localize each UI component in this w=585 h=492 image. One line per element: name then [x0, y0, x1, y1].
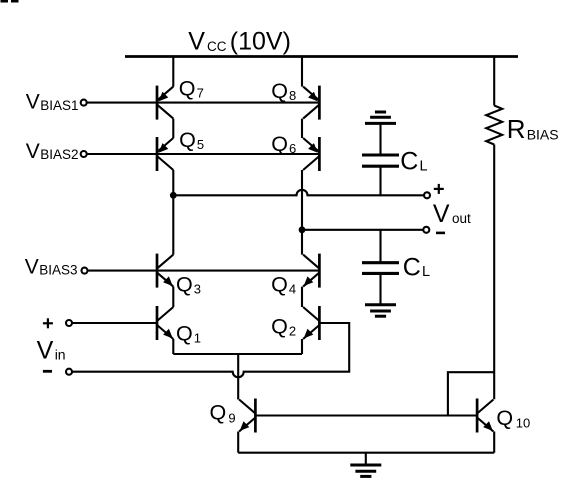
capacitor CL bottom: [362, 261, 399, 264]
wire to ground symbol: [365, 453, 367, 465]
svg-text:Q: Q: [271, 315, 288, 339]
capacitor CL top: [362, 153, 399, 156]
svg-text:V: V: [25, 255, 39, 278]
wire RBIAS to Q10 collector: [493, 145, 495, 400]
svg-text:BIAS3: BIAS3: [39, 263, 77, 278]
svg-text:7: 7: [197, 86, 204, 101]
svg-text:(10V): (10V): [230, 28, 291, 56]
svg-text:10: 10: [516, 415, 530, 430]
wire Q4 emitter to Q2 collector: [301, 287, 303, 307]
svg-text:Q: Q: [271, 272, 288, 296]
wire Q9 emitter down: [237, 432, 239, 453]
transistor Q9: [239, 399, 255, 433]
wire Vin+ to Q1 base: [72, 322, 157, 324]
Vout label: [433, 200, 471, 228]
svg-text:V: V: [433, 200, 450, 228]
svg-text:Q: Q: [179, 128, 196, 152]
wire ground to top CL: [379, 123, 381, 155]
wire Q9 base to Q10 base: [255, 414, 477, 416]
Vout+ plus sign: [434, 184, 444, 194]
svg-text:4: 4: [289, 281, 296, 296]
Q2 label: [271, 315, 296, 339]
wire emitter bus: [173, 353, 302, 355]
svg-text:C: C: [403, 253, 421, 281]
transistor Q5: [157, 137, 173, 171]
wire ground bus: [238, 452, 494, 454]
RBIAS label: [507, 114, 559, 144]
stray page marks top-left: [1, 0, 19, 3]
Vin minus sign: [43, 370, 52, 373]
wire top CL to + line: [379, 166, 381, 195]
wire VBIAS3 to Q3/Q4 bases: [87, 270, 319, 272]
CL top label: [400, 148, 427, 176]
Q7 label: [179, 77, 204, 101]
svg-text:L: L: [422, 264, 430, 280]
svg-text:Q: Q: [496, 406, 513, 430]
wire Q7 collector to Q5 emitter: [172, 119, 174, 138]
wire - output: [302, 229, 423, 231]
svg-text:BIAS2: BIAS2: [40, 147, 78, 162]
resistor RBIAS: [486, 106, 502, 145]
Q9 label: [210, 401, 236, 426]
wire Q10 emitter down: [493, 432, 495, 453]
terminal VBIAS1: [81, 100, 87, 106]
terminal Vin+: [66, 320, 72, 326]
node - output tap junction: [299, 226, 306, 233]
svg-text:BIAS: BIAS: [527, 126, 559, 142]
wire VCC to Q7 emitter: [172, 57, 174, 87]
wire Q5 collector to Q3 collector: [172, 170, 174, 255]
svg-text:9: 9: [228, 410, 235, 425]
VBIAS1 label: [26, 91, 79, 114]
transistor Q2: [303, 306, 319, 340]
svg-text:5: 5: [197, 137, 204, 152]
svg-text:V: V: [26, 140, 40, 163]
svg-text:out: out: [452, 211, 471, 226]
terminal Vout-: [423, 227, 429, 233]
wire Q10 diode connection base to collector: [448, 372, 494, 415]
transistor Q4: [303, 254, 319, 288]
Vout- minus sign: [436, 232, 445, 235]
Q5 label: [179, 128, 204, 152]
svg-text:V: V: [37, 337, 54, 365]
wire VBIAS2 to Q5/Q6 bases: [87, 153, 320, 155]
VBIAS3 label: [25, 255, 78, 278]
wire Q6 collector to Q4 collector: [301, 170, 303, 255]
svg-text:C: C: [400, 148, 418, 176]
svg-text:6: 6: [289, 141, 296, 156]
ground: [350, 464, 381, 467]
wire bottom CL to ground: [379, 273, 381, 304]
svg-text:Q: Q: [176, 273, 193, 297]
terminal VBIAS3: [82, 268, 88, 274]
top CL inverted ground: [365, 122, 396, 125]
wire VCC to RBIAS: [493, 57, 495, 106]
VBIAS2 label: [26, 140, 79, 163]
terminal Vin-: [66, 369, 72, 375]
svg-text:BIAS1: BIAS1: [40, 98, 78, 113]
Q10 label: [496, 406, 530, 430]
node + output tap junction: [170, 192, 177, 199]
terminal VBIAS2: [81, 151, 87, 157]
wire VCC to Q8 emitter: [301, 57, 303, 87]
svg-text:Q: Q: [271, 79, 288, 103]
svg-text:2: 2: [289, 324, 296, 339]
wire VBIAS1 to Q7/Q8 bases: [87, 102, 320, 104]
CL bottom label: [403, 253, 430, 281]
bottom CL ground: [365, 303, 396, 306]
svg-text:V: V: [26, 91, 40, 114]
wire Vin- with hop, to Q2 base: [72, 323, 349, 377]
Q8 label: [271, 79, 296, 103]
wire + output with hop over right column: [173, 190, 424, 195]
svg-text:CC: CC: [207, 39, 227, 54]
transistor Q10: [477, 399, 493, 433]
VCC rail: [125, 55, 518, 58]
wire - line to bottom CL: [379, 230, 381, 263]
svg-text:V: V: [188, 28, 205, 56]
wire Q3 emitter to Q1 collector: [172, 287, 174, 307]
svg-text:in: in: [55, 347, 66, 363]
transistor Q7: [157, 86, 173, 120]
svg-text:Q: Q: [176, 321, 193, 345]
Q6 label: [271, 132, 296, 156]
svg-text:L: L: [420, 158, 428, 174]
Vin plus sign: [43, 318, 53, 328]
wire Q2 emitter down: [301, 339, 303, 354]
transistor Q3: [157, 254, 173, 288]
svg-text:1: 1: [194, 330, 201, 345]
transistor Q1: [157, 306, 173, 340]
svg-text:R: R: [507, 114, 526, 144]
transistor Q6: [303, 137, 319, 171]
svg-text:3: 3: [194, 282, 201, 297]
svg-text:8: 8: [289, 88, 296, 103]
svg-text:Q: Q: [271, 132, 288, 156]
svg-text:Q: Q: [179, 77, 196, 101]
Q3 label: [176, 273, 201, 297]
wire tail to Q9 collector: [237, 354, 239, 400]
wire Q1 emitter down: [172, 339, 174, 354]
VCC label: [188, 28, 291, 56]
Q1 label: [176, 321, 201, 345]
Q4 label: [271, 272, 296, 296]
terminal Vout+: [424, 192, 430, 198]
wire Q8 collector to Q6 emitter: [301, 119, 303, 138]
Vin label: [37, 337, 66, 365]
transistor Q8: [303, 86, 319, 120]
svg-text:Q: Q: [210, 401, 227, 425]
